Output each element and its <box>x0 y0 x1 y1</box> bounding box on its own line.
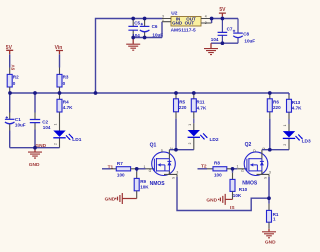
svg-text:4.7K: 4.7K <box>197 106 207 111</box>
svg-text:G: G <box>149 169 152 173</box>
svg-text:220: 220 <box>179 105 187 110</box>
wire Q1 source to sense <box>177 177 269 211</box>
wire C2 bottom <box>34 130 36 148</box>
ground (R9 sideways) <box>105 193 137 204</box>
svg-text:GND: GND <box>35 143 46 149</box>
resistor R3 <box>57 74 69 87</box>
svg-text:2: 2 <box>205 21 207 25</box>
wire R4 to LED1 <box>59 112 61 124</box>
svg-text:104: 104 <box>43 125 51 130</box>
resistor R1 <box>267 210 279 222</box>
svg-text:R13: R13 <box>292 100 301 105</box>
svg-text:NMOS: NMOS <box>242 180 258 186</box>
wire C1 bottom <box>9 131 11 148</box>
capacitor C8 <box>233 19 256 44</box>
wire gnd bottom left <box>10 147 60 149</box>
svg-text:4.7K: 4.7K <box>63 105 73 110</box>
svg-text:5V: 5V <box>219 7 226 13</box>
resistor R4 <box>57 99 73 112</box>
wire Q2 source down <box>268 177 270 198</box>
svg-text:1: 1 <box>273 217 276 222</box>
svg-text:220: 220 <box>273 105 281 110</box>
svg-text:LD3: LD3 <box>302 139 311 145</box>
wire R5 down <box>175 112 177 119</box>
wire junction to R1 <box>268 198 270 204</box>
svg-text:G: G <box>241 169 244 173</box>
svg-text:1: 1 <box>188 124 192 126</box>
svg-text:4.7K: 4.7K <box>292 106 302 111</box>
pin R2 top <box>9 68 11 75</box>
pin R4 top <box>59 93 61 99</box>
svg-text:GND: GND <box>206 197 217 203</box>
svg-text:104: 104 <box>211 37 219 42</box>
wire U2 gnd pin down <box>133 22 162 38</box>
capacitor C7 <box>211 19 233 44</box>
svg-text:100: 100 <box>117 173 125 178</box>
pin R5 top <box>175 93 177 99</box>
wire Q2 drain net <box>262 149 289 151</box>
svg-text:4: 4 <box>205 15 207 19</box>
svg-text:1: 1 <box>162 18 164 22</box>
svg-text:LD1: LD1 <box>72 137 81 143</box>
ground (R1) <box>262 229 276 246</box>
svg-text:2: 2 <box>283 144 287 146</box>
svg-text:1: 1 <box>144 165 146 169</box>
svg-text:2: 2 <box>188 142 192 144</box>
svg-text:IS: IS <box>230 205 235 211</box>
svg-text:U2: U2 <box>171 10 177 16</box>
svg-text:NMOS: NMOS <box>150 181 166 187</box>
wire main rail <box>10 93 289 95</box>
svg-text:3: 3 <box>176 170 178 174</box>
wire Q1 drain net <box>169 149 193 151</box>
svg-text:C1: C1 <box>15 117 21 122</box>
svg-text:S: S <box>172 177 176 179</box>
svg-text:2: 2 <box>262 147 266 149</box>
wire riser to regulator <box>96 19 163 94</box>
wire Vin to R3 <box>59 54 61 67</box>
wire rail to C2 <box>34 93 36 113</box>
pin R6 top <box>269 93 271 99</box>
svg-text:GND: GND <box>105 197 116 203</box>
resistor R6 <box>267 99 281 112</box>
svg-text:1: 1 <box>237 164 239 168</box>
svg-text:OUT: OUT <box>185 21 195 26</box>
pin R3 top <box>59 68 61 75</box>
svg-text:GND: GND <box>265 239 276 245</box>
wire R10 top <box>232 169 234 173</box>
wire 5V to R2 <box>9 54 11 67</box>
power 5V top right <box>219 7 226 19</box>
svg-text:Q1: Q1 <box>150 143 157 149</box>
svg-text:0: 0 <box>63 81 66 86</box>
transistor Q1 <box>149 143 179 187</box>
resistor R10 <box>230 179 248 198</box>
wire R9 top <box>136 169 138 172</box>
svg-text:10uF: 10uF <box>244 39 255 44</box>
regulator U2 AMS1117-5 <box>162 10 212 33</box>
pin R13 top <box>288 95 290 99</box>
svg-text:LD2: LD2 <box>210 137 219 143</box>
wire C7 C8 gnd <box>211 42 238 44</box>
svg-text:R11: R11 <box>196 100 205 105</box>
svg-text:Q2: Q2 <box>245 142 252 148</box>
wire R8 to Q2 gate <box>233 168 238 170</box>
wire R13 to LED3 <box>288 112 290 119</box>
power 5V left <box>6 45 13 54</box>
ground (left) <box>28 148 42 168</box>
svg-text:R8: R8 <box>214 161 220 166</box>
wire T2 stub <box>198 168 208 170</box>
capacitor C1 <box>5 113 26 131</box>
pin R3 bottom <box>59 87 61 93</box>
svg-text:5V: 5V <box>11 64 16 71</box>
svg-text:3: 3 <box>269 170 271 174</box>
svg-text:2: 2 <box>54 143 58 145</box>
capacitor C6 <box>140 20 164 38</box>
transistor Q2 <box>241 142 271 186</box>
svg-text:100: 100 <box>214 173 222 178</box>
svg-text:C2: C2 <box>42 120 48 125</box>
svg-text:1: 1 <box>283 124 287 126</box>
svg-text:C8: C8 <box>243 31 249 36</box>
svg-text:AMS1117-5: AMS1117-5 <box>171 28 196 34</box>
wire regulator output <box>212 19 238 24</box>
svg-text:R2: R2 <box>13 75 19 80</box>
LED LD2 <box>188 123 219 149</box>
resistor R13 <box>287 99 303 112</box>
svg-text:S: S <box>264 177 268 179</box>
wire R11 to LED2 <box>193 112 195 119</box>
svg-text:R7: R7 <box>117 161 123 166</box>
svg-text:GND: GND <box>29 162 40 168</box>
svg-text:10K: 10K <box>140 185 149 190</box>
ground (regulator input) <box>126 38 140 51</box>
resistor R11 <box>191 99 207 112</box>
resistor R2 <box>7 74 19 87</box>
pin R11 top <box>193 93 195 99</box>
ground (R10 sideways) <box>206 194 232 205</box>
wire T1 stub <box>102 168 111 170</box>
pin R2 bottom <box>9 87 11 93</box>
wire R7 to Q1 gate <box>137 168 146 170</box>
svg-text:1: 1 <box>54 123 58 125</box>
wire rail to C1 <box>9 93 11 113</box>
svg-text:0: 0 <box>13 81 16 86</box>
resistor R7 <box>116 161 130 177</box>
svg-text:10K: 10K <box>233 193 242 198</box>
svg-text:GND: GND <box>172 21 183 26</box>
LED LD1 <box>53 123 81 147</box>
svg-text:10uF: 10uF <box>15 123 26 128</box>
svg-text:R10: R10 <box>239 187 248 192</box>
svg-text:C6: C6 <box>152 24 158 29</box>
capacitor C2 <box>30 113 51 131</box>
svg-text:R5: R5 <box>179 100 185 105</box>
svg-text:R9: R9 <box>140 179 146 184</box>
wire R6 down <box>269 112 271 119</box>
svg-text:R4: R4 <box>63 100 69 105</box>
power Vin <box>55 45 63 54</box>
resistor R8 <box>213 161 227 178</box>
svg-text:R3: R3 <box>63 75 69 80</box>
resistor R5 <box>174 99 187 112</box>
resistor R9 <box>134 178 149 190</box>
ground (regulator output) <box>204 43 218 54</box>
svg-text:R6: R6 <box>273 100 279 105</box>
svg-text:C5: C5 <box>134 20 140 25</box>
capacitor C5 <box>128 20 140 38</box>
svg-text:C7: C7 <box>227 26 233 31</box>
LED LD3 <box>283 124 311 150</box>
svg-text:2: 2 <box>170 147 174 149</box>
